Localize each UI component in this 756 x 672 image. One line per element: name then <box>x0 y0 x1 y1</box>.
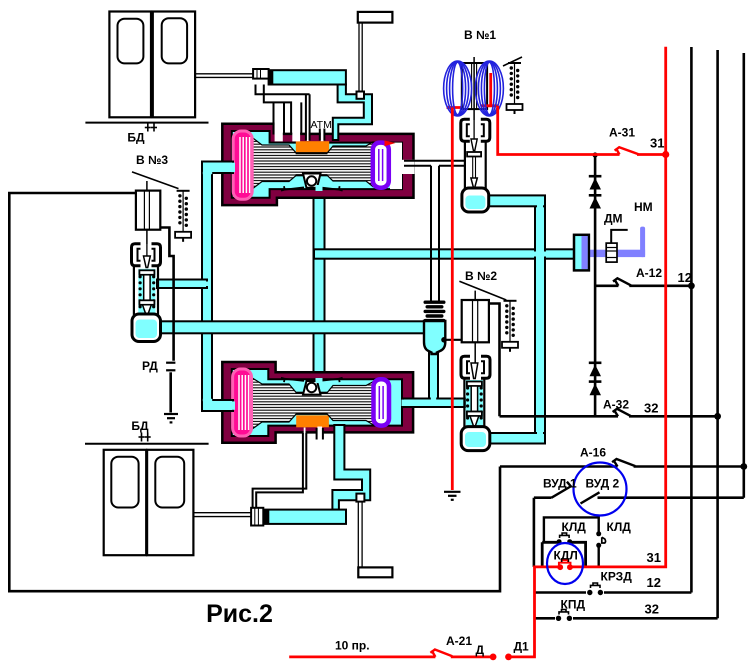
svg-text:А-12: А-12 <box>636 266 662 280</box>
svg-text:БД: БД <box>127 131 145 145</box>
svg-text:ДМ: ДМ <box>604 212 623 226</box>
svg-text:10 пр.: 10 пр. <box>335 639 370 653</box>
svg-text:32: 32 <box>645 602 659 617</box>
svg-text:РД: РД <box>142 359 158 373</box>
svg-text:ВУД 1: ВУД 1 <box>543 477 577 491</box>
svg-text:КЛД: КЛД <box>562 520 587 534</box>
svg-text:АТМ: АТМ <box>311 119 332 131</box>
svg-text:31: 31 <box>647 550 661 565</box>
svg-text:А-21: А-21 <box>446 634 472 648</box>
svg-text:Д: Д <box>476 643 485 657</box>
svg-text:В №2: В №2 <box>465 269 497 283</box>
svg-text:В №3: В №3 <box>136 153 168 167</box>
svg-text:А-32: А-32 <box>603 398 629 412</box>
svg-text:12: 12 <box>647 575 661 590</box>
svg-text:КРЗД: КРЗД <box>601 570 633 584</box>
svg-text:32: 32 <box>644 401 658 416</box>
svg-text:НМ: НМ <box>634 200 653 214</box>
svg-text:КДЛ: КДЛ <box>554 549 578 563</box>
svg-text:А-16: А-16 <box>580 446 606 460</box>
svg-text:Рис.2: Рис.2 <box>206 600 273 628</box>
svg-text:В №1: В №1 <box>464 28 496 42</box>
svg-text:КЛД: КЛД <box>607 520 632 534</box>
svg-text:Д1: Д1 <box>514 640 530 654</box>
svg-text:12: 12 <box>678 270 692 285</box>
svg-text:А-31: А-31 <box>609 126 635 140</box>
svg-text:КПД: КПД <box>561 598 586 612</box>
svg-text:ВУД 2: ВУД 2 <box>586 477 620 491</box>
svg-text:31: 31 <box>650 136 664 151</box>
svg-text:БД: БД <box>131 419 149 433</box>
